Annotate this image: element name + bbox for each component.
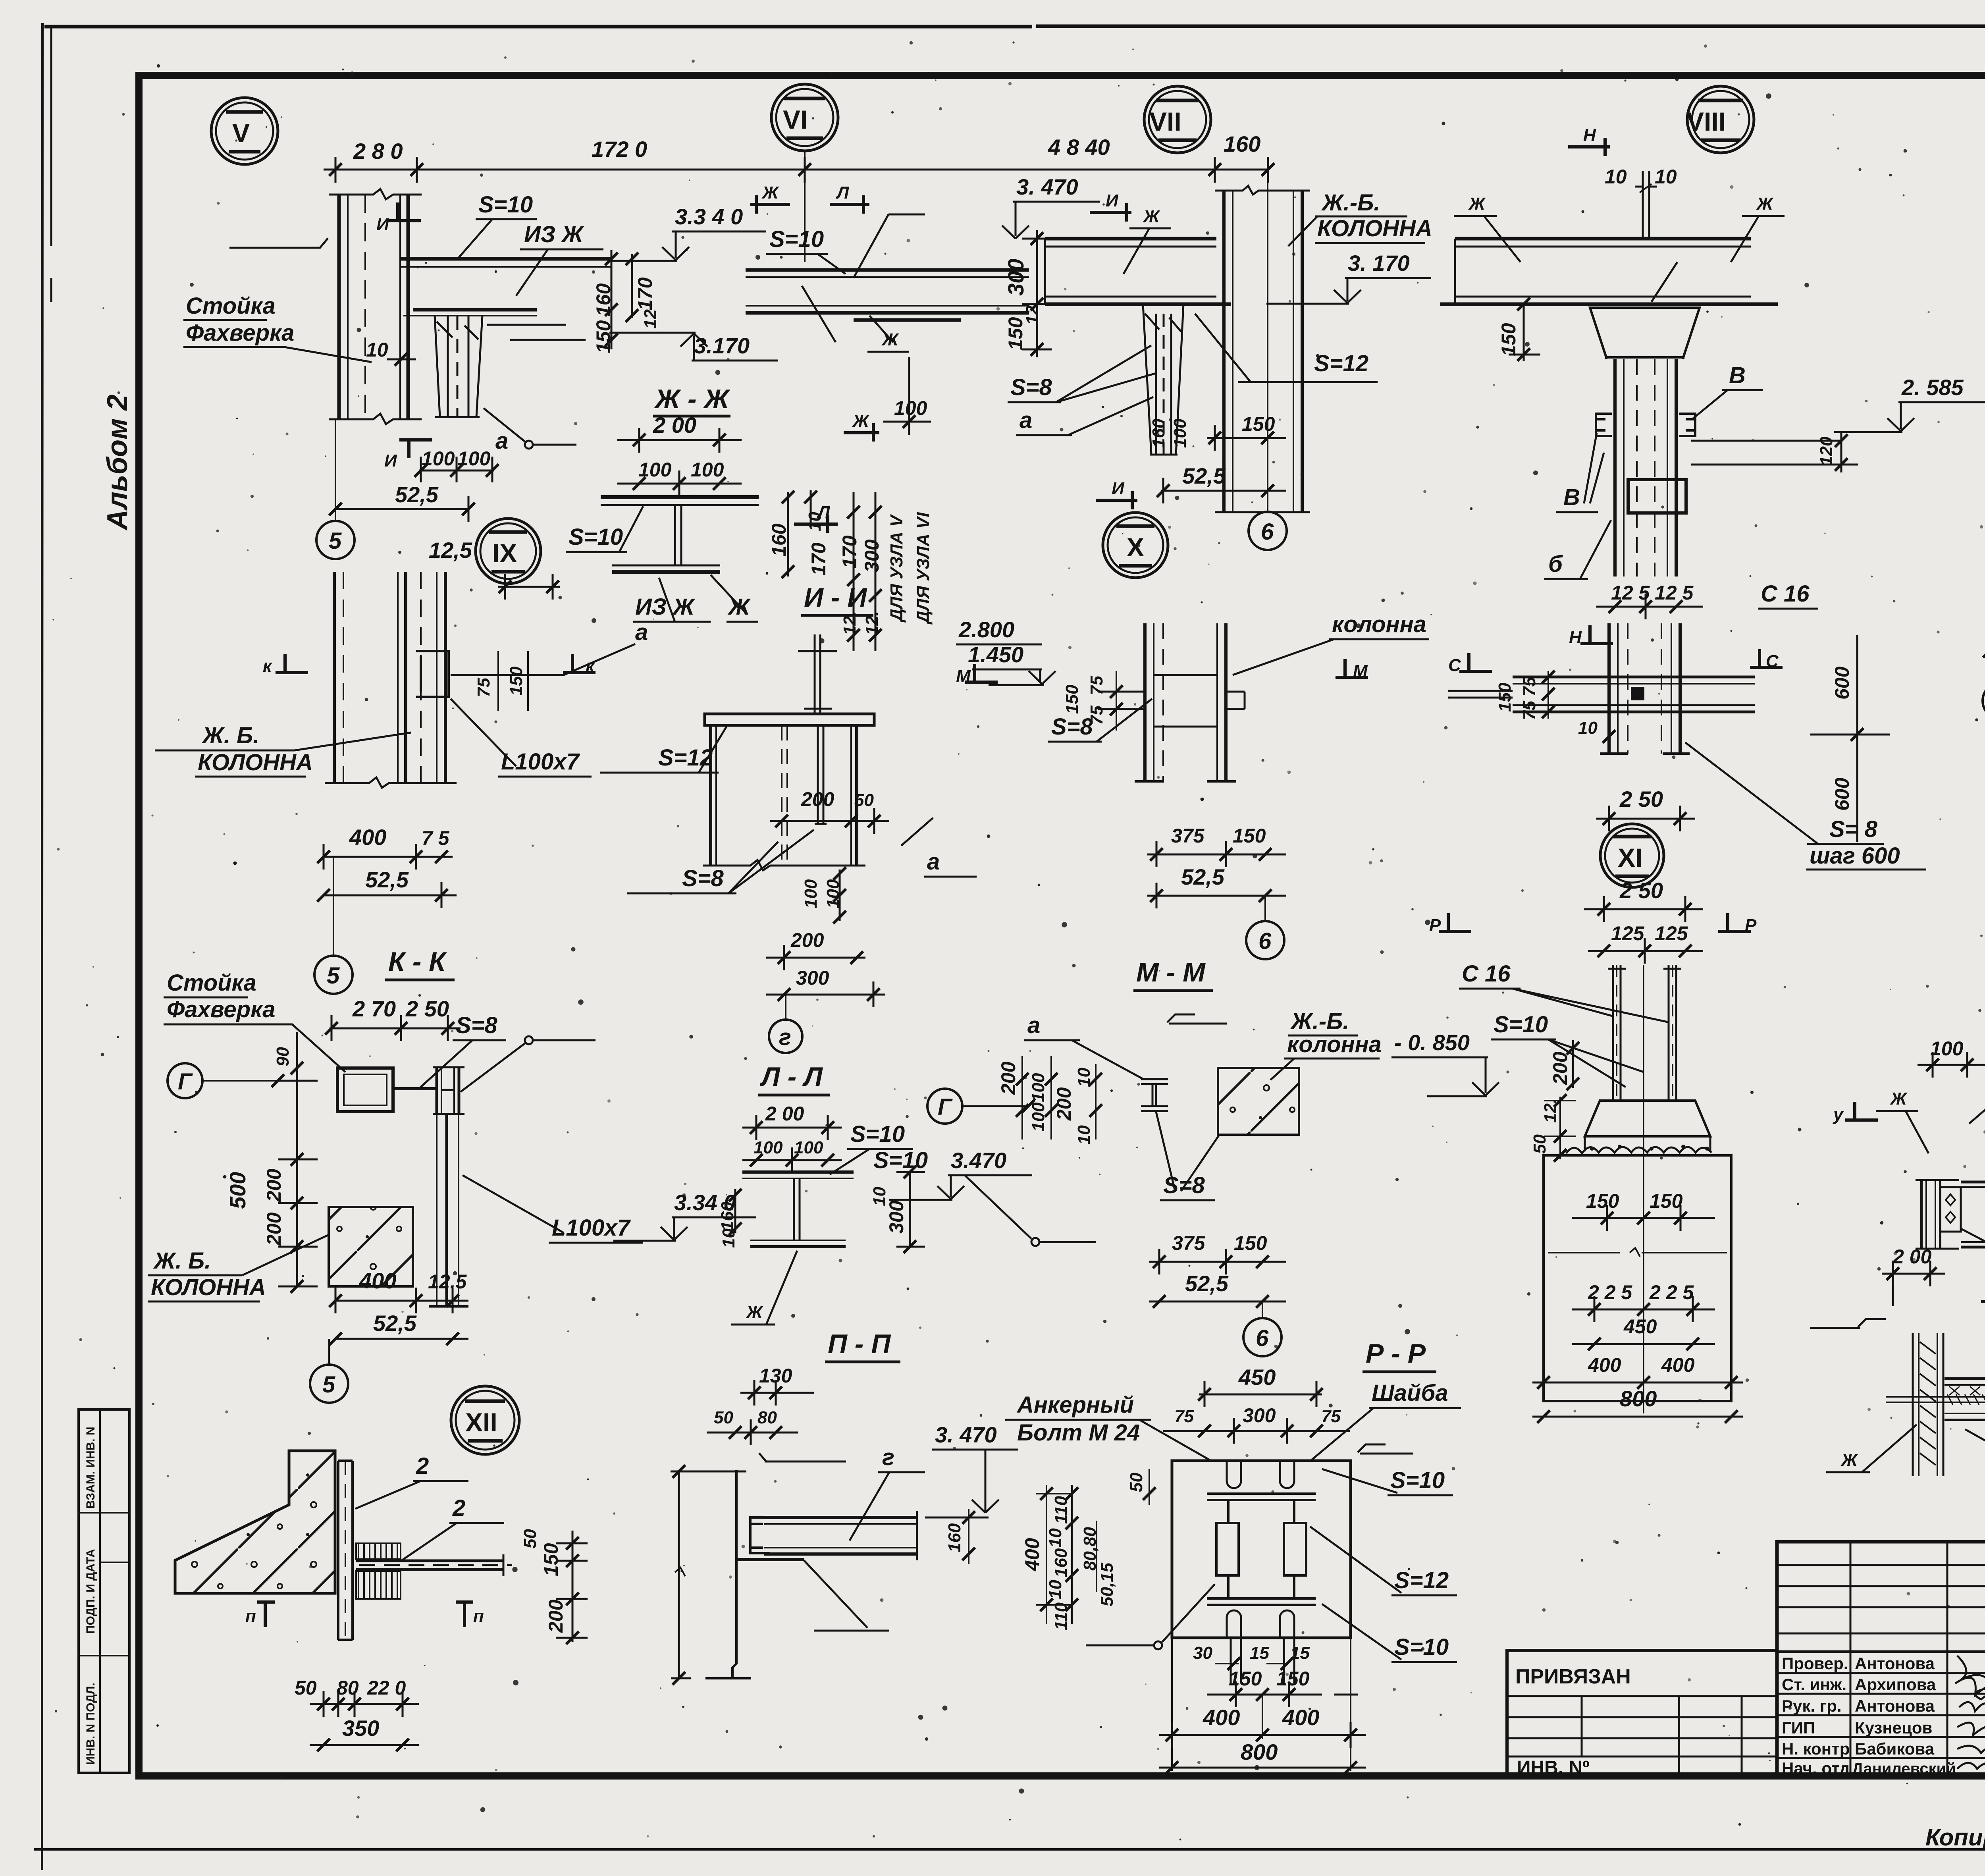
svg-text:110: 110 xyxy=(1051,1496,1071,1524)
svg-text:Стойка: Стойка xyxy=(186,293,276,319)
svg-text:S=10: S=10 xyxy=(478,192,533,218)
concrete beam VII xyxy=(1045,239,1231,304)
svg-text:Анкерный: Анкерный xyxy=(1016,1392,1134,1418)
svg-text:шаг 600: шаг 600 xyxy=(1810,843,1900,869)
axis circle G M-M xyxy=(927,1089,962,1124)
svg-text:350: 350 xyxy=(342,1716,379,1741)
svg-text:10: 10 xyxy=(1605,166,1627,188)
svg-text:150: 150 xyxy=(1004,317,1027,350)
svg-text:10: 10 xyxy=(1074,1125,1094,1145)
svg-text:Ж: Ж xyxy=(746,1303,763,1322)
svg-text:5: 5 xyxy=(329,528,342,554)
svg-text:12 5: 12 5 xyxy=(1611,582,1650,604)
svg-text:Ж.-Б.: Ж.-Б. xyxy=(1321,190,1380,216)
svg-text:5: 5 xyxy=(327,963,340,989)
svg-text:Ст. инж.: Ст. инж. xyxy=(1782,1675,1846,1694)
svg-text:3.470: 3.470 xyxy=(951,1148,1006,1173)
svg-text:375: 375 xyxy=(1172,1232,1206,1254)
svg-text:50: 50 xyxy=(295,1677,317,1699)
svg-text:600: 600 xyxy=(1831,666,1853,700)
beam Pi-Pi xyxy=(736,1511,917,1560)
svg-text:50,15: 50,15 xyxy=(1097,1562,1117,1606)
svg-text:Ж: Ж xyxy=(852,411,870,431)
svg-text:Ж: Ж xyxy=(1756,194,1774,214)
vertical plate XII xyxy=(338,1461,353,1640)
crosshatch between beam lines U-U xyxy=(1949,1386,1985,1395)
leader to beam left VI xyxy=(802,286,836,342)
svg-text:150: 150 xyxy=(1229,1668,1262,1690)
svg-text:a: a xyxy=(1019,407,1032,433)
svg-text:И: И xyxy=(376,215,389,234)
plate with holes XIV xyxy=(1940,1187,1961,1232)
anchor slots P-P xyxy=(1227,1461,1294,1638)
beam through XI top xyxy=(1448,677,1755,712)
svg-text:VI: VI xyxy=(783,105,807,134)
axis circle 6 (middle) xyxy=(1246,921,1284,959)
column shaft VIII xyxy=(1615,359,1676,576)
leader from rod to beam xyxy=(1652,262,1677,302)
stiffener plate X xyxy=(1154,675,1217,727)
svg-text:100: 100 xyxy=(1170,418,1190,448)
svg-text:Ж. Б.: Ж. Б. xyxy=(201,723,259,748)
svg-text:200: 200 xyxy=(263,1168,285,1202)
svg-text:S=10: S=10 xyxy=(850,1121,905,1147)
svg-text:2 70: 2 70 xyxy=(352,996,396,1021)
svg-text:3.3 4 0: 3.3 4 0 xyxy=(675,204,743,229)
svg-text:2.800: 2.800 xyxy=(958,617,1014,642)
svg-text:50: 50 xyxy=(714,1408,733,1427)
svg-text:S=10: S=10 xyxy=(873,1147,928,1173)
axis circle 6 (top) xyxy=(1249,512,1287,550)
svg-text:12.5: 12.5 xyxy=(428,1271,467,1293)
svg-text:75: 75 xyxy=(1321,1407,1341,1426)
bolts below plate P-P xyxy=(1231,1638,1294,1683)
svg-text:150: 150 xyxy=(1233,825,1266,847)
svg-text:400: 400 xyxy=(1021,1538,1043,1571)
svg-text:2 00: 2 00 xyxy=(653,413,696,438)
svg-text:С 16: С 16 xyxy=(1462,961,1511,987)
svg-text:400: 400 xyxy=(1203,1705,1240,1730)
svg-text:И: И xyxy=(1106,191,1119,210)
svg-text:Ж: Ж xyxy=(761,183,779,202)
leader dot M-M xyxy=(1031,1238,1039,1246)
node circle X xyxy=(1103,513,1168,578)
vertical extension lines P-P xyxy=(1172,1638,1351,1771)
svg-text:6: 6 xyxy=(1256,1325,1269,1351)
svg-text:10: 10 xyxy=(1046,1528,1065,1548)
svg-text:К - К: К - К xyxy=(388,947,447,977)
splice box VIII xyxy=(1628,480,1686,513)
svg-text:12 5: 12 5 xyxy=(1655,582,1694,604)
column IX bottom break xyxy=(325,777,457,788)
leader to plate Pi-Pi xyxy=(804,1560,889,1631)
svg-text:И: И xyxy=(384,451,397,470)
svg-text:ГИП: ГИП xyxy=(1782,1718,1815,1737)
svg-text:75: 75 xyxy=(474,678,493,697)
svg-text:300: 300 xyxy=(861,539,883,573)
axis circle 5 (top) xyxy=(316,521,355,559)
concrete corner wall XII xyxy=(175,1451,335,1593)
svg-text:400: 400 xyxy=(349,825,386,850)
svg-text:50: 50 xyxy=(854,791,874,810)
svg-text:150: 150 xyxy=(1650,1190,1683,1212)
svg-text:X: X xyxy=(1127,532,1144,562)
columns left part xyxy=(1850,1542,1985,1778)
svg-text:S=10: S=10 xyxy=(1494,1012,1548,1037)
axis to circle 6 bottom xyxy=(1262,1301,1263,1318)
svg-text:L100x7: L100x7 xyxy=(552,1215,631,1241)
svg-text:Нач. отд: Нач. отд xyxy=(1782,1759,1850,1778)
svg-text:XII: XII xyxy=(465,1407,497,1437)
svg-text:1.450: 1.450 xyxy=(968,642,1023,667)
svg-text:450: 450 xyxy=(1238,1365,1276,1390)
svg-text:10: 10 xyxy=(1578,718,1598,738)
node circle VI xyxy=(771,84,838,151)
outer scan edge: top line xyxy=(44,26,1985,27)
svg-text:Г: Г xyxy=(178,1069,193,1095)
svg-text:50: 50 xyxy=(520,1529,540,1548)
svg-text:52,5: 52,5 xyxy=(373,1311,417,1336)
column cap trapezoid XI xyxy=(1585,1101,1710,1136)
svg-text:п: п xyxy=(473,1606,484,1626)
svg-text:500: 500 xyxy=(225,1172,250,1209)
svg-text:6: 6 xyxy=(1258,928,1272,954)
I-beam stub above cap xyxy=(798,634,837,714)
svg-text:10: 10 xyxy=(1046,1580,1065,1599)
svg-text:30: 30 xyxy=(1193,1643,1212,1663)
svg-text:160: 160 xyxy=(1149,418,1168,448)
foundation centerlines XI xyxy=(1643,965,1644,1413)
axis line VI circle to beam xyxy=(804,151,806,262)
bracket mark M-M xyxy=(1167,1014,1227,1024)
top bracket line Pi-Pi xyxy=(759,1453,846,1461)
svg-text:400: 400 xyxy=(1588,1354,1621,1376)
svg-text:52,5: 52,5 xyxy=(395,482,439,507)
svg-text:S=10: S=10 xyxy=(569,524,623,550)
svg-text:7 5: 7 5 xyxy=(422,827,450,849)
scalloped concrete top XI xyxy=(1566,1147,1711,1153)
axis line to circle 5 bottom xyxy=(328,1339,330,1364)
svg-text:В: В xyxy=(1563,484,1580,510)
svg-text:S=10: S=10 xyxy=(1390,1467,1445,1493)
left dim vertical Pi-Pi xyxy=(671,1471,746,1678)
svg-text:Бабикова: Бабикова xyxy=(1855,1739,1935,1758)
black gusset XI xyxy=(1631,687,1644,700)
svg-text:2: 2 xyxy=(452,1495,465,1521)
svg-text:170: 170 xyxy=(807,542,830,576)
svg-text:S=8: S=8 xyxy=(1010,374,1052,400)
svg-text:10: 10 xyxy=(1655,166,1677,188)
svg-text:400: 400 xyxy=(359,1268,396,1293)
svg-text:150: 150 xyxy=(1497,323,1520,356)
svg-text:150: 150 xyxy=(540,1543,562,1576)
svg-text:a: a xyxy=(635,619,648,645)
svg-text:300: 300 xyxy=(1243,1404,1276,1427)
beam continues down K-K xyxy=(429,1114,468,1306)
leader dot bottom left P-P xyxy=(1154,1641,1162,1649)
leader line through connection xyxy=(451,644,635,675)
svg-text:375: 375 xyxy=(1171,825,1205,847)
svg-text:110: 110 xyxy=(1051,1602,1071,1630)
dim line across V-VI-VII xyxy=(324,157,1268,183)
svg-text:3. 470: 3. 470 xyxy=(1016,174,1078,199)
svg-text:2 00: 2 00 xyxy=(1892,1246,1932,1268)
svg-text:Архипова: Архипова xyxy=(1855,1675,1936,1694)
svg-text:Н: Н xyxy=(1583,125,1596,145)
svg-text:Л - Л: Л - Л xyxy=(759,1062,823,1092)
svg-text:15: 15 xyxy=(1250,1643,1269,1663)
svg-text:150: 150 xyxy=(592,320,615,353)
svg-text:S= 8: S= 8 xyxy=(1829,816,1878,842)
node circle XII xyxy=(451,1386,519,1454)
splice leader line VI xyxy=(854,214,925,278)
right rotated dims of Zh-Zh xyxy=(788,490,811,576)
svg-text:150: 150 xyxy=(1586,1190,1619,1212)
svg-text:Ж. Б.: Ж. Б. xyxy=(153,1248,211,1274)
svg-text:2 50: 2 50 xyxy=(1619,787,1663,812)
svg-text:600: 600 xyxy=(1831,777,1853,811)
ribbed strips XII xyxy=(356,1543,401,1559)
svg-text:150: 150 xyxy=(1276,1668,1310,1690)
concrete block K-K xyxy=(329,1207,413,1286)
beam V right dims 160 170 xyxy=(611,250,632,349)
axis line to circle 5 mid xyxy=(333,857,334,955)
svg-text:100: 100 xyxy=(1029,1073,1048,1102)
bracket mark upper left U-U xyxy=(1810,1319,1886,1328)
zigzag weld hatch in plate U-U xyxy=(1920,1342,1936,1465)
svg-text:XI: XI xyxy=(1618,843,1642,872)
svg-text:150: 150 xyxy=(1234,1232,1267,1254)
leader dot right K-K xyxy=(525,1036,533,1044)
svg-text:б: б xyxy=(1548,551,1563,577)
svg-text:200: 200 xyxy=(545,1599,567,1633)
axis line VII column xyxy=(1267,183,1268,512)
axis circle 5 (middle) xyxy=(314,956,353,994)
svg-text:2: 2 xyxy=(416,1453,429,1479)
gap plate between tube and beam xyxy=(393,1087,437,1090)
gusset under beam V xyxy=(435,316,482,417)
svg-text:ДЛЯ УЗЛА V: ДЛЯ УЗЛА V xyxy=(887,514,906,623)
svg-text:S=10: S=10 xyxy=(1394,1634,1449,1660)
beam double lines U-U xyxy=(1945,1379,1985,1420)
svg-text:Ж: Ж xyxy=(1143,207,1160,226)
margin stamp table xyxy=(79,1409,129,1773)
horizontal ties right of column VIII xyxy=(1691,441,1842,465)
svg-text:10: 10 xyxy=(366,339,388,361)
svg-text:200: 200 xyxy=(263,1212,285,1246)
svg-text:150: 150 xyxy=(1062,684,1082,714)
staff row lines xyxy=(1777,1650,1985,1653)
svg-text:V: V xyxy=(232,118,250,148)
svg-text:200: 200 xyxy=(801,788,834,810)
left vertical dims K-K: 500/200/200 xyxy=(278,1072,318,1286)
svg-text:Ж: Ж xyxy=(1468,194,1486,214)
svg-text:КОЛОННА: КОЛОННА xyxy=(1317,216,1432,241)
svg-text:52,5: 52,5 xyxy=(1182,463,1226,488)
svg-text:S=12: S=12 xyxy=(658,745,713,771)
foundation block XI xyxy=(1544,1155,1731,1401)
beam XII xyxy=(356,1554,512,1576)
wall bracket line left xyxy=(229,238,328,248)
wall line Pi-Pi xyxy=(705,1470,751,1678)
cap plate I-I xyxy=(705,714,874,725)
svg-text:172 0: 172 0 xyxy=(592,137,647,162)
svg-text:80: 80 xyxy=(757,1408,777,1427)
main stamp outer xyxy=(1777,1542,1985,1778)
svg-text:ИНВ. Nº: ИНВ. Nº xyxy=(1517,1757,1590,1778)
svg-text:150: 150 xyxy=(1495,683,1515,712)
axis line to circle 5 xyxy=(335,419,336,521)
svg-text:15: 15 xyxy=(1290,1643,1310,1663)
dots in concrete cap xyxy=(1590,1145,1709,1151)
node circle XI xyxy=(1600,824,1664,887)
concrete column M-M xyxy=(1218,1068,1299,1135)
column cross in plate P-P xyxy=(1207,1494,1316,1605)
svg-text:Л: Л xyxy=(836,183,849,202)
svg-text:170: 170 xyxy=(838,535,861,569)
svg-text:75: 75 xyxy=(1087,706,1106,725)
svg-text:100: 100 xyxy=(754,1138,783,1157)
outer scan edge: bottom line xyxy=(34,1848,1985,1851)
svg-text:2. 585: 2. 585 xyxy=(1901,375,1964,400)
svg-text:200: 200 xyxy=(790,929,824,951)
svg-text:a: a xyxy=(495,428,508,454)
fachwerk post V: break line top xyxy=(329,189,422,199)
svg-text:800: 800 xyxy=(1620,1386,1657,1411)
column VII xyxy=(1224,191,1302,512)
svg-text:Болт М 24: Болт М 24 xyxy=(1017,1420,1140,1446)
svg-text:S=8: S=8 xyxy=(682,866,724,891)
svg-text:3. 170: 3. 170 xyxy=(1348,251,1410,276)
beam V top flange xyxy=(401,259,611,340)
svg-text:Провер.: Провер. xyxy=(1782,1654,1848,1673)
axis circle G K-K xyxy=(168,1063,202,1098)
svg-text:М - М: М - М xyxy=(1136,957,1206,987)
svg-text:Антонова: Антонова xyxy=(1855,1697,1935,1715)
anchor bolt columns XI xyxy=(1608,965,1681,1100)
node circle VII xyxy=(1144,86,1211,153)
connection angle IX xyxy=(416,651,449,697)
svg-text:160: 160 xyxy=(1051,1548,1071,1577)
svg-text:И: И xyxy=(1112,479,1125,498)
node circle IX xyxy=(476,519,541,584)
svg-text:г: г xyxy=(779,1024,791,1050)
svg-text:S=12: S=12 xyxy=(1394,1568,1449,1593)
svg-text:100: 100 xyxy=(691,459,724,481)
svg-text:160: 160 xyxy=(1224,131,1260,156)
tube section K-K xyxy=(337,1068,393,1112)
svg-text:С 16: С 16 xyxy=(1761,581,1810,607)
svg-text:VII: VII xyxy=(1149,107,1181,136)
svg-text:52,5: 52,5 xyxy=(1185,1271,1229,1296)
left small table rows xyxy=(1777,1565,1985,1633)
svg-text:Н: Н xyxy=(1569,628,1582,647)
svg-text:200: 200 xyxy=(1549,1051,1571,1085)
svg-text:5: 5 xyxy=(322,1372,335,1398)
svg-text:160: 160 xyxy=(768,523,790,557)
svg-text:Р - Р: Р - Р xyxy=(1366,1338,1426,1369)
svg-text:400: 400 xyxy=(1282,1705,1319,1730)
svg-text:VIII: VIII xyxy=(1686,107,1726,136)
svg-text:Г: Г xyxy=(938,1094,953,1120)
svg-text:Кузнецов: Кузнецов xyxy=(1855,1718,1932,1737)
wall plate vertical U-U xyxy=(1913,1333,1943,1476)
column IX xyxy=(334,572,445,783)
svg-text:150: 150 xyxy=(1242,413,1275,435)
outer scan edge: secondary left line xyxy=(50,28,52,302)
svg-text:160: 160 xyxy=(592,283,615,316)
svg-text:170: 170 xyxy=(634,277,656,310)
svg-text:у: у xyxy=(1833,1105,1844,1124)
node circle V xyxy=(211,98,278,164)
svg-text:2 50: 2 50 xyxy=(405,996,449,1021)
svg-text:Шайба: Шайба xyxy=(1372,1380,1448,1406)
svg-text:Ж: Ж xyxy=(1890,1089,1908,1109)
svg-text:В: В xyxy=(1729,362,1746,388)
svg-text:ВЗАМ. ИНВ. N: ВЗАМ. ИНВ. N xyxy=(84,1427,97,1509)
bottom break I-I xyxy=(703,860,865,870)
svg-text:г: г xyxy=(882,1444,894,1470)
I-beam small M-M xyxy=(1141,1079,1168,1111)
signatures squiggles xyxy=(1955,1656,1985,1773)
svg-text:к: к xyxy=(263,656,273,676)
I-beam section L-L xyxy=(742,1172,854,1247)
svg-text:52,5: 52,5 xyxy=(365,867,409,892)
svg-text:3.170: 3.170 xyxy=(694,333,750,358)
svg-text:Ж - Ж: Ж - Ж xyxy=(654,384,730,414)
svg-text:12,5: 12,5 xyxy=(429,538,472,563)
fachwerk post V: flange lines xyxy=(339,195,408,419)
bracket mark XIV xyxy=(1969,1082,1985,1124)
svg-text:ДЛЯ УЗЛА VI: ДЛЯ УЗЛА VI xyxy=(913,512,933,625)
column XI top xyxy=(1600,623,1690,754)
svg-text:6: 6 xyxy=(1261,519,1274,545)
svg-text:125: 125 xyxy=(1655,922,1688,945)
svg-text:300: 300 xyxy=(1003,259,1028,296)
svg-text:Фахверка: Фахверка xyxy=(186,320,294,346)
svg-text:Стойка: Стойка xyxy=(167,970,256,996)
axis circle 6 (bottom) xyxy=(1243,1318,1282,1356)
svg-text:4 8 40: 4 8 40 xyxy=(1048,135,1110,160)
node circle VIII xyxy=(1687,86,1754,153)
svg-text:S=10: S=10 xyxy=(769,226,824,252)
svg-text:Фахверка: Фахверка xyxy=(167,997,275,1022)
svg-text:ПОДП. И ДАТА: ПОДП. И ДАТА xyxy=(84,1549,97,1634)
axis circle g I-I xyxy=(769,1020,802,1053)
svg-text:450: 450 xyxy=(1623,1315,1657,1338)
svg-text:800: 800 xyxy=(1241,1739,1278,1764)
svg-text:400: 400 xyxy=(1661,1354,1695,1376)
column head VIII xyxy=(1590,308,1700,359)
svg-text:150: 150 xyxy=(507,666,526,696)
svg-text:ИНВ. N ПОДЛ.: ИНВ. N ПОДЛ. xyxy=(84,1683,97,1765)
svg-text:22 0: 22 0 xyxy=(367,1677,406,1699)
svg-text:160: 160 xyxy=(945,1523,964,1552)
bracket under beam VII xyxy=(1143,304,1183,455)
svg-text:12: 12 xyxy=(641,309,660,329)
svg-text:100: 100 xyxy=(1930,1037,1964,1060)
base plate square P-P xyxy=(1172,1461,1351,1638)
svg-text:п: п xyxy=(245,1606,256,1626)
svg-text:2 00: 2 00 xyxy=(765,1103,804,1125)
svg-text:IX: IX xyxy=(492,538,517,568)
svg-text:Ж.-Б.: Ж.-Б. xyxy=(1290,1008,1349,1034)
beam VIII xyxy=(1440,239,1778,304)
svg-text:Копировал Подлевская: Копировал Подлевская xyxy=(1925,1824,1985,1851)
svg-text:Рук. гр.: Рук. гр. xyxy=(1782,1697,1842,1715)
beam VI top flange xyxy=(746,270,1029,320)
svg-text:- 0. 850: - 0. 850 xyxy=(1394,1030,1470,1055)
